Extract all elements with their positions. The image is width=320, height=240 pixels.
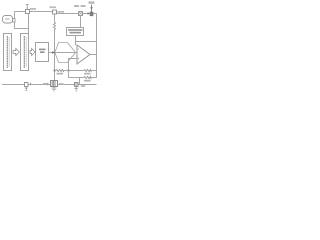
fuse F1 (crossed box)	[79, 12, 83, 16]
wire drop line2 to bottom wire	[79, 78, 81, 85]
tick T1 on bottom rail	[30, 83, 32, 86]
label C5	[81, 85, 86, 87]
connector J1 tab	[13, 19, 16, 23]
label R2	[57, 73, 64, 75]
ground under C4	[52, 87, 57, 92]
wire J1 down elbow to box2	[15, 22, 29, 29]
feedback line 1 with resistors	[55, 70, 57, 72]
wire bottom ground rail	[2, 84, 97, 86]
wire right vertical rail	[96, 14, 98, 79]
label R4	[84, 80, 91, 82]
node feedback junction	[68, 70, 70, 72]
wire DAC output arrow	[49, 52, 53, 54]
label C1 above FB2	[50, 6, 57, 8]
label inside J1	[5, 18, 10, 19]
background	[0, 0, 100, 100]
diamond summing shape	[55, 43, 76, 63]
label R3	[84, 73, 91, 75]
block arrow 1	[13, 48, 19, 55]
ground under C5	[75, 87, 78, 92]
ground arrow under C3	[25, 88, 28, 90]
label C4 right	[59, 83, 64, 85]
feedback line 2 with resistor R4	[69, 71, 85, 78]
capacitor C2 (dark box on rail)	[90, 12, 93, 16]
node bus-feedback	[54, 70, 56, 72]
wire F1 down to supply note box	[80, 16, 82, 28]
resistor R4	[84, 76, 92, 78]
supply pin symbol above FB1	[26, 5, 29, 10]
wire vertical into filter block	[28, 14, 30, 34]
node bus-signal	[54, 52, 56, 54]
wire analog bus vertical	[54, 14, 56, 22]
resistor R2	[56, 69, 64, 71]
wire op-amp supply pin	[75, 42, 77, 46]
tick T2 on bottom rail	[47, 83, 49, 86]
node supply junction	[87, 13, 89, 15]
wire riser J1 to top rail	[14, 12, 16, 19]
wire signal into op-amp	[55, 52, 77, 54]
block U3 DAC	[36, 43, 49, 62]
label above F1	[74, 5, 79, 7]
capacitor C4 (wide box on bottom rail)	[51, 81, 58, 87]
ferrite bead FB1	[26, 10, 30, 14]
label FB1 value	[30, 8, 36, 10]
resistor R3	[84, 69, 92, 71]
capacitor C3 on bottom rail	[25, 83, 29, 87]
wire op-amp output	[90, 54, 97, 56]
wire top supply rail	[15, 11, 58, 13]
ferrite bead FB2	[53, 10, 57, 14]
block U1 interface (left tall box)	[4, 34, 12, 71]
resistor R1 on bus	[53, 22, 55, 30]
wire note box to supply net	[76, 36, 97, 42]
label C4 left	[43, 83, 47, 85]
label FB2 value right	[58, 11, 64, 13]
connector J1 (audio input stadium)	[3, 16, 13, 24]
note box: power amplifier supply	[67, 28, 84, 36]
op-amp A1	[77, 45, 90, 64]
block arrow 2	[30, 48, 35, 55]
block U2 modulator (second tall box)	[21, 34, 29, 71]
wire inverting input riser	[69, 59, 77, 71]
wire bus continues	[54, 30, 56, 82]
supply +5V arrow	[89, 1, 95, 3]
capacitor C5 on bottom rail	[75, 83, 79, 87]
